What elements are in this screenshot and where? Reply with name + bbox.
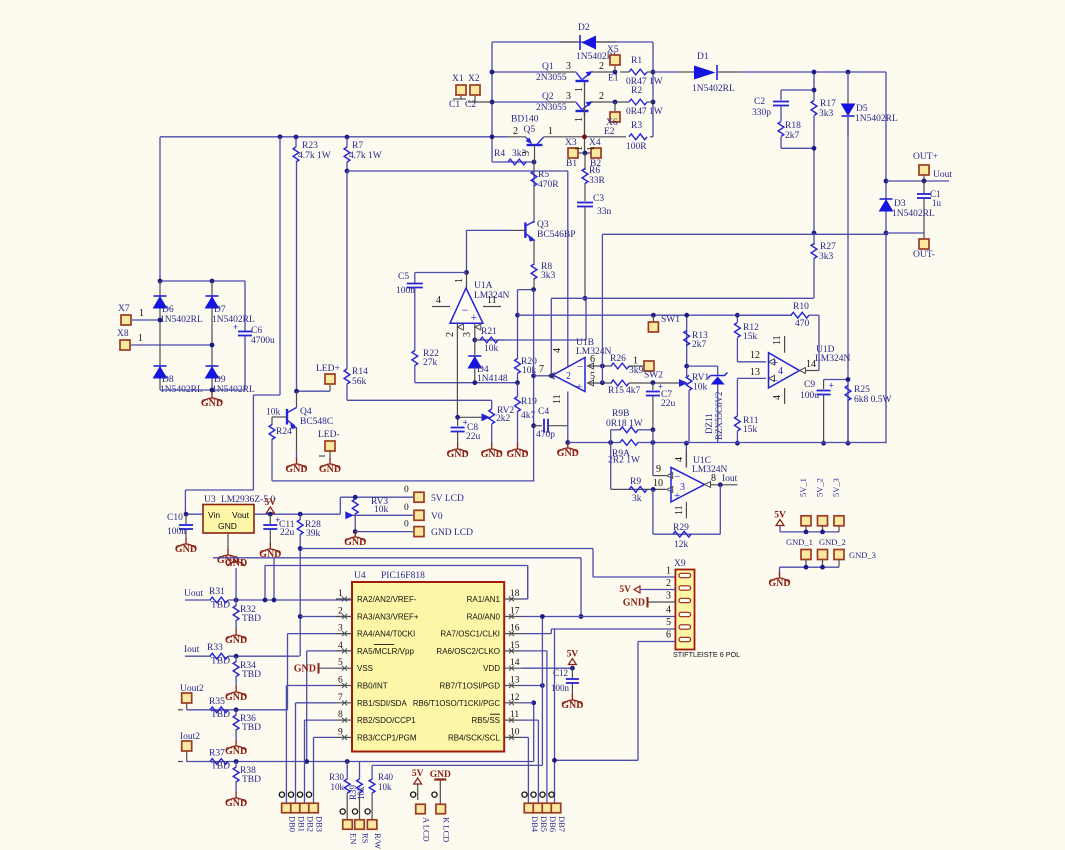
svg-text:U3: U3 (204, 495, 216, 505)
junction RV3 top (353, 495, 358, 500)
pin circle DB7 (549, 792, 554, 797)
pad Iout2 (182, 741, 192, 751)
pad SW1 (648, 322, 658, 332)
pad GND LCD (414, 527, 424, 537)
resistor RV3 (352, 497, 388, 515)
op-amp U1B (553, 338, 612, 393)
diode D5 (842, 104, 898, 124)
wire bus C right riser (527, 566, 529, 600)
wire Q4 emitter net (296, 451, 298, 460)
ground RV3 (344, 531, 366, 548)
junction SW1 row left (515, 313, 520, 318)
svg-text:2N3055: 2N3055 (536, 73, 567, 83)
wire U1C pin4 bar (685, 450, 687, 467)
resistor R11 (735, 416, 759, 435)
svg-text:GND: GND (225, 798, 247, 809)
wire row2 (300, 616, 352, 618)
svg-text:15k: 15k (743, 332, 758, 342)
wire Q5 base down (534, 145, 536, 162)
svg-text:12k: 12k (674, 540, 689, 550)
wire pin9 riser (652, 430, 654, 476)
svg-text:−: − (462, 303, 469, 317)
svg-text:VSS: VSS (357, 664, 373, 673)
wire bridge left column (159, 281, 161, 390)
svg-text:22u: 22u (661, 399, 676, 409)
wire Uout2 tick (178, 709, 183, 711)
resistor R9B (620, 427, 638, 433)
output arrow U1D (799, 368, 805, 374)
svg-text:RB5/SS: RB5/SS (472, 716, 500, 725)
wire D5 column long (847, 117, 849, 443)
wire pin6 row (588, 365, 612, 367)
svg-text:EN: EN (349, 833, 359, 844)
wire R9B right (638, 429, 653, 431)
wire D2 cathode lead (560, 41, 578, 43)
pin circle DB0 (279, 792, 284, 797)
svg-text:10k: 10k (331, 782, 345, 792)
pin 12 RB6/T1OSO/T1CKI/PGC (413, 693, 522, 708)
svg-text:GND: GND (481, 449, 503, 460)
wire bus A riser (592, 549, 594, 578)
wire R6 to C3 (584, 183, 586, 201)
svg-text:B1: B1 (566, 159, 577, 169)
svg-text:14: 14 (806, 359, 816, 370)
wire stub (813, 244, 815, 245)
svg-text:GND: GND (225, 746, 247, 757)
junction busB row1 (272, 598, 277, 603)
wire RB row y685.5 (286, 685, 336, 687)
wire Q1 base row (492, 71, 548, 73)
pad OUT- (919, 239, 929, 249)
svg-text:1: 1 (138, 333, 143, 344)
svg-text:3k: 3k (632, 494, 642, 504)
svg-text:R9B: R9B (612, 409, 629, 419)
pad DB1 (291, 803, 301, 813)
junction R29 tap (651, 487, 656, 492)
junction X3X4 (583, 151, 588, 156)
wire R33 left (185, 655, 211, 657)
junction pin17 riser (540, 614, 545, 619)
svg-text:6: 6 (666, 630, 671, 641)
resistor R9 (629, 477, 647, 504)
capacitor C10 (179, 525, 193, 529)
wire Q4 collector stub (296, 391, 298, 407)
pad A LCD (416, 804, 426, 814)
wire R29 right v (719, 485, 721, 534)
svg-text:GND: GND (446, 449, 468, 460)
wire R10 left (737, 314, 791, 316)
wire RV2 row (347, 399, 492, 401)
wire C12 down (571, 683, 573, 696)
resistor R18 (778, 121, 801, 141)
wire GND3 stub (838, 560, 840, 567)
wire r38 down (235, 781, 237, 793)
svg-text:X9: X9 (674, 559, 686, 569)
svg-text:3: 3 (680, 482, 685, 493)
wire X3 to X4 (578, 152, 591, 154)
wire D1 anode lead (678, 71, 694, 73)
wire X8 to bridge (131, 344, 212, 346)
wire R22 down (414, 365, 416, 383)
wire R29 row (653, 533, 720, 535)
svg-text:8: 8 (338, 710, 343, 720)
svg-text:4k7: 4k7 (626, 386, 641, 396)
junction pin12 (531, 700, 536, 705)
junction R30 top (345, 759, 350, 764)
wire C3 down (584, 207, 586, 299)
svg-text:RA2/AN2/VREF-: RA2/AN2/VREF- (357, 595, 417, 604)
wire R29 left v (652, 489, 654, 534)
junction bridge GND (210, 388, 215, 393)
wire r32 down (235, 620, 237, 630)
svg-text:5V_1: 5V_1 (798, 478, 808, 497)
junction R7 bottom (345, 169, 350, 174)
junction E1 (613, 70, 618, 75)
wire R27 up (813, 233, 815, 244)
wire right outer column (885, 72, 887, 443)
wire C4 left (534, 425, 542, 427)
wire D2 anode lead (596, 41, 616, 43)
wire RV1 bottom (688, 391, 690, 444)
junction R9B left (608, 440, 613, 445)
wire Q2 emitter to R2 (592, 101, 629, 103)
svg-text:10: 10 (510, 727, 520, 737)
svg-text:15: 15 (510, 641, 520, 651)
svg-text:TBD: TBD (211, 657, 230, 667)
wire R5 column (533, 162, 535, 223)
wire to U3 h (185, 489, 253, 491)
wire R18 down (780, 137, 782, 148)
svg-text:1N5402RL: 1N5402RL (892, 209, 935, 219)
wire C10 down (185, 529, 187, 539)
svg-text:RV1: RV1 (692, 373, 709, 383)
output arrow U1C (705, 482, 711, 488)
svg-text:3k3: 3k3 (819, 109, 834, 119)
wire U1A output pin (466, 273, 468, 289)
junction busC row1 (263, 598, 268, 603)
resistor R30 (344, 779, 350, 793)
junction OUT- row (884, 231, 889, 236)
wire R10 feedback v (818, 315, 820, 370)
wire R40 down (371, 793, 373, 819)
wire pin13 row (737, 377, 766, 379)
junction x280 (278, 134, 283, 139)
svg-text:C6: C6 (251, 326, 262, 336)
capacitor C2 (773, 102, 789, 106)
transistor Q2 (536, 92, 593, 116)
svg-text:Iout: Iout (184, 645, 200, 655)
svg-text:TBD: TBD (211, 601, 230, 611)
pin circle RW (365, 809, 370, 814)
wire LED+ row (297, 390, 331, 392)
wire row1 (228, 599, 352, 601)
svg-text:2: 2 (513, 126, 518, 137)
pad X8 (120, 340, 130, 350)
junction C10 (184, 512, 189, 517)
arrow pin3 (475, 324, 481, 330)
svg-text:10k: 10k (266, 408, 281, 418)
transistor Q1 (536, 62, 593, 86)
svg-text:GND_3: GND_3 (849, 550, 876, 560)
svg-text:3: 3 (338, 624, 343, 634)
svg-text:Uout: Uout (933, 170, 952, 180)
svg-text:6k8 0.5W: 6k8 0.5W (854, 395, 892, 405)
wire stub r36 (235, 710, 237, 715)
svg-text:C12: C12 (553, 668, 568, 678)
svg-text:GND LCD: GND LCD (431, 528, 473, 538)
svg-text:R3: R3 (631, 121, 642, 131)
svg-text:100n: 100n (396, 286, 415, 296)
wire VDD row (522, 667, 573, 669)
arrow pin12 (769, 359, 775, 365)
op-amp U1D (769, 345, 851, 388)
wire X9 pin5 row (551, 628, 675, 630)
pin slot 2 X9 (679, 586, 691, 590)
wire Iout2 stub (186, 752, 188, 762)
svg-text:100R: 100R (626, 142, 647, 152)
wire pin15 row (522, 650, 547, 652)
wire X1 stub (460, 96, 462, 99)
wire ALCD stub (417, 784, 419, 800)
wire DB7 riser (554, 629, 556, 803)
wire R39 down (359, 793, 361, 819)
svg-text:X8: X8 (117, 329, 129, 339)
wire R1 to column (647, 71, 653, 73)
svg-text:OUT+: OUT+ (913, 152, 938, 162)
wire x814 mid (813, 116, 815, 233)
svg-text:U1A: U1A (474, 281, 493, 291)
wire R7 stub (346, 137, 348, 147)
junction C12 (570, 666, 575, 671)
wire bridge top (160, 280, 245, 282)
svg-text:11: 11 (772, 335, 783, 345)
svg-text:RA4/AN4/T0CKI: RA4/AN4/T0CKI (357, 630, 415, 639)
wiper arrow RV3 (346, 512, 353, 518)
wire D4 upper (474, 340, 476, 355)
ground rail (557, 442, 579, 459)
diode D3 (880, 199, 935, 219)
svg-text:GND: GND (506, 449, 528, 460)
svg-text:VDD: VDD (483, 664, 500, 673)
wire C9 top row (824, 379, 848, 381)
svg-text:5: 5 (590, 371, 595, 382)
junction C11 top (268, 512, 273, 517)
svg-text:13: 13 (750, 367, 760, 378)
svg-text:RB7/T1OSI/PGD: RB7/T1OSI/PGD (440, 682, 501, 691)
overline SS (490, 713, 500, 715)
svg-text:GND: GND (623, 598, 645, 609)
resistor R31 (209, 587, 230, 611)
wire R7 down (346, 162, 348, 171)
junction (490, 70, 495, 75)
pin 2 RA3/AN3/VREF+ (336, 607, 419, 622)
arrow pin10 (667, 486, 673, 492)
wire R8 to R20 (518, 289, 534, 291)
junction R37 R38 (234, 759, 239, 764)
output arrow U1B (548, 373, 554, 379)
svg-text:Q5: Q5 (524, 125, 536, 135)
pin 3 RA4/AN4/T0CKI (336, 624, 415, 639)
pin 5 VSS (336, 658, 373, 673)
svg-text:6: 6 (590, 354, 595, 365)
wire Q1 Q2 collector column (584, 84, 586, 153)
svg-text:27k: 27k (423, 358, 438, 368)
svg-text:−: − (577, 361, 583, 373)
svg-text:R30: R30 (329, 772, 345, 782)
wire U1A out riser (466, 230, 468, 272)
wire C6 lower (244, 336, 246, 391)
arrow pin13 (769, 375, 775, 381)
svg-text:2k7: 2k7 (692, 340, 707, 350)
svg-text:D6: D6 (162, 305, 174, 315)
svg-text:16: 16 (510, 624, 520, 634)
wire riser x551 (550, 298, 552, 376)
wire GND1 stub (805, 560, 807, 567)
capacitor C3 (577, 203, 593, 207)
svg-text:C9: C9 (804, 380, 815, 390)
svg-text:2k7: 2k7 (785, 131, 800, 141)
svg-text:D8: D8 (162, 375, 174, 385)
junction C7 top (651, 380, 656, 385)
pin 6 RB0/INT (336, 676, 388, 691)
svg-text:4: 4 (436, 295, 441, 306)
wire Vout riser (339, 497, 341, 514)
svg-text:4: 4 (666, 605, 671, 616)
ground flag X9 (623, 597, 676, 609)
wire Uout2 stub (186, 704, 188, 710)
svg-text:R40: R40 (378, 772, 394, 782)
diode D2 (576, 23, 619, 62)
svg-text:5V_2: 5V_2 (815, 478, 825, 497)
wire U1C pin4 riser (685, 443, 687, 467)
resistor R17 (811, 99, 836, 119)
svg-text:3: 3 (566, 91, 571, 102)
svg-text:3: 3 (566, 61, 571, 72)
svg-text:E1: E1 (608, 74, 619, 84)
wire bridge bottom (160, 389, 245, 391)
svg-text:RB2/SDO/CCP1: RB2/SDO/CCP1 (357, 716, 416, 725)
svg-text:1N5402RL: 1N5402RL (692, 84, 735, 94)
wire DB7 route (555, 759, 639, 761)
svg-text:LED-: LED- (318, 430, 340, 440)
svg-text:1: 1 (574, 117, 585, 122)
junction bridge TM (210, 279, 215, 284)
svg-text:DB5: DB5 (539, 816, 549, 832)
wire DB riser x286.4 (285, 686, 287, 804)
svg-text:Vout: Vout (232, 510, 250, 520)
svg-text:C4: C4 (538, 407, 549, 417)
svg-text:0R47 1W: 0R47 1W (626, 107, 663, 117)
svg-text:V0: V0 (431, 512, 443, 522)
junction out row (549, 373, 554, 378)
wire R21 riser (585, 298, 587, 340)
junction pin6 (600, 364, 605, 369)
pad X2 (470, 85, 480, 95)
wire x611 column (610, 430, 612, 490)
wire R35 row (187, 709, 288, 711)
svg-text:11: 11 (510, 710, 519, 720)
wire C4 right (548, 425, 568, 427)
wire R30 upper (346, 762, 348, 780)
wire R40 upper (371, 765, 373, 779)
svg-text:R/W: R/W (373, 833, 383, 849)
wire OUT- row (886, 232, 924, 234)
svg-text:5V LCD: 5V LCD (431, 494, 464, 504)
wire pin17 to X9 pin4 (522, 616, 676, 618)
svg-text:R18: R18 (785, 121, 801, 131)
junction R4 R5 (532, 160, 537, 165)
svg-text:3: 3 (666, 591, 671, 602)
pin slot 6 X9 (679, 637, 691, 641)
junction X6 tap (613, 100, 618, 105)
wire X9 pin6 riser (637, 642, 639, 761)
wire DB4 riser (527, 737, 529, 803)
pad 5V LCD (414, 492, 424, 502)
arrow pin5 (588, 380, 594, 386)
svg-text:RB3/CCP1/PGM: RB3/CCP1/PGM (357, 733, 417, 742)
resistor R37 (209, 749, 230, 772)
pad DB2 (300, 803, 310, 813)
wire Q2 base lead (548, 101, 576, 103)
svg-text:SW1: SW1 (661, 315, 680, 325)
wire X9 pin6 row (638, 641, 675, 643)
wire top loop (492, 41, 653, 43)
wire U1D out (805, 370, 819, 372)
junction R23 top (294, 135, 299, 140)
wire R14 column upper (346, 171, 348, 369)
capacitor C8 (451, 418, 468, 432)
junction R29 out (718, 482, 723, 487)
resistor R27 (811, 242, 836, 262)
resistor R15 (608, 380, 641, 396)
diode D8 (154, 366, 203, 395)
svg-text:R17: R17 (820, 99, 836, 109)
svg-text:12: 12 (750, 350, 760, 361)
wire x280 to U3 h (253, 394, 280, 396)
wire Q1 base lead (548, 71, 576, 73)
wire X1 tick (453, 98, 466, 100)
svg-text:X1: X1 (452, 74, 464, 84)
svg-text:3k3: 3k3 (541, 271, 556, 281)
wire C8 down (457, 432, 459, 445)
diode D7 (206, 296, 255, 325)
wire R19 upper (517, 383, 519, 397)
junction R28 bus (298, 546, 303, 551)
svg-text:8: 8 (711, 473, 716, 484)
svg-text:X5: X5 (607, 45, 619, 55)
svg-text:4: 4 (338, 641, 343, 651)
svg-text:BZX55C6V2: BZX55C6V2 (714, 391, 724, 440)
wire Vin drop (184, 490, 186, 514)
svg-text:33R: 33R (589, 176, 606, 186)
junction U1B out (531, 373, 536, 378)
wire stub r38 (235, 762, 237, 768)
pin slot 3 X9 (679, 598, 691, 602)
wire X6 stub (614, 102, 616, 111)
wire C8 row (458, 416, 482, 418)
svg-text:1: 1 (338, 589, 343, 599)
wire 5V1 stub (805, 526, 807, 532)
wire Q4 emitter down (296, 427, 298, 451)
svg-text:R21: R21 (481, 327, 497, 337)
svg-text:5: 5 (666, 617, 671, 628)
svg-text:RA5/MCLR/Vpp: RA5/MCLR/Vpp (357, 647, 414, 656)
wire to U3 v (252, 395, 254, 490)
junction R28 top (298, 512, 303, 517)
svg-text:R37: R37 (209, 749, 225, 759)
ground RV2 (481, 443, 503, 460)
wire r36 down (235, 729, 237, 741)
